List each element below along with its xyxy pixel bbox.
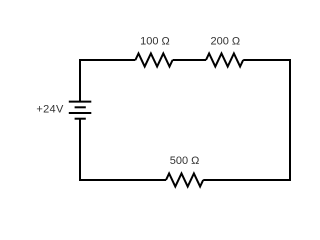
svg-text:200 Ω: 200 Ω [210,36,240,48]
svg-text:100 Ω: 100 Ω [140,36,170,48]
svg-text:500 Ω: 500 Ω [170,155,200,167]
svg-text:+24V: +24V [36,104,64,116]
